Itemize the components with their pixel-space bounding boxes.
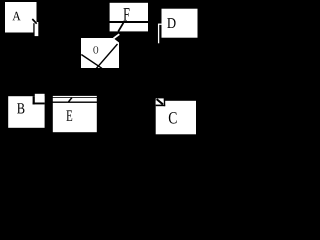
corner square with diagonal on box C [156,98,166,106]
box F [110,3,148,21]
box C [156,101,196,135]
cut corner of box O [113,38,119,43]
wire stub from O corner toward F bar [114,34,120,38]
box E [53,103,97,132]
title bar above box E [53,98,97,102]
box B [8,96,44,128]
flag on box A (corner tab) [32,19,38,36]
box O [81,38,119,68]
line through O (slash, toward F) [96,44,117,68]
slash across F bar (wire crossing) [118,23,123,32]
roof line above box E [53,96,97,97]
corner square on box B [33,94,45,105]
box A [5,2,37,33]
flag line at box D bottom-left [159,24,162,44]
title bar under box F [110,23,148,31]
box D [162,9,198,38]
line through O (backslash) [81,55,102,69]
slash across E bar (wire crossing) [69,98,72,102]
